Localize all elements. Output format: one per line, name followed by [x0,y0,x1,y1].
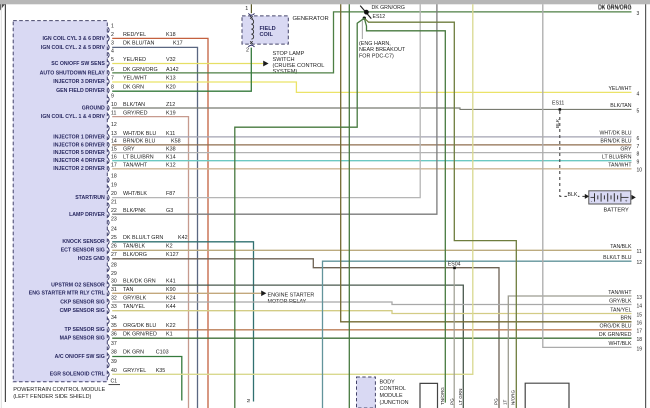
svg-text:19: 19 [637,346,643,352]
svg-text:GROUND: GROUND [82,105,105,111]
svg-text:TAN/BLK: TAN/BLK [123,244,145,250]
svg-text:K17: K17 [173,40,183,46]
svg-text:17: 17 [637,329,643,335]
svg-text:A142: A142 [166,67,179,73]
svg-text:4: 4 [637,91,640,97]
svg-text:K12: K12 [166,163,176,169]
svg-text:K44: K44 [166,304,176,310]
svg-text:6: 6 [637,136,640,142]
svg-text:11: 11 [637,249,642,255]
svg-text:40: 40 [111,368,117,374]
svg-text:TAN/WHT: TAN/WHT [608,290,632,296]
svg-text:BLK/TAN: BLK/TAN [123,102,145,108]
svg-text:YEL/RED: YEL/RED [123,57,146,63]
svg-text:SYSTEM): SYSTEM) [273,69,298,75]
svg-text:23: 23 [111,216,117,222]
svg-text:FIELD: FIELD [260,26,276,32]
svg-text:7: 7 [111,76,114,82]
svg-text:INJECTOR 4 DRIVER: INJECTOR 4 DRIVER [53,158,105,164]
svg-text:14: 14 [637,304,643,310]
svg-text:GENERATOR: GENERATOR [293,16,329,22]
svg-text:BATTERY: BATTERY [604,208,630,214]
svg-text:30: 30 [111,279,117,285]
svg-text:6: 6 [111,67,114,73]
svg-text:12: 12 [111,122,117,128]
svg-text:RED/YEL: RED/YEL [123,32,146,38]
svg-text:16: 16 [111,154,117,160]
svg-text:CMP SENSOR SIG: CMP SENSOR SIG [60,308,105,314]
svg-text:COIL: COIL [260,32,274,38]
svg-text:5: 5 [111,57,114,63]
svg-text:K24: K24 [166,295,176,301]
svg-text:G3: G3 [166,208,173,214]
svg-text:GRY: GRY [123,146,135,152]
svg-text:GRY: GRY [620,146,632,152]
svg-text:15: 15 [111,146,117,152]
svg-text:33: 33 [111,304,117,310]
svg-text:C103: C103 [156,350,169,356]
svg-text:29: 29 [111,271,117,277]
svg-text:13: 13 [637,295,643,301]
svg-text:K41: K41 [166,279,176,285]
svg-text:10: 10 [637,168,643,174]
svg-text:KNOCK SENSOR: KNOCK SENSOR [62,239,105,245]
svg-text:9: 9 [637,160,640,166]
svg-text:TAN/WHT: TAN/WHT [123,163,148,169]
svg-text:ES04: ES04 [448,262,461,268]
svg-text:1T: 1T [503,399,508,405]
svg-text:BRN: BRN [621,316,632,322]
svg-text:TAN/YEL: TAN/YEL [123,304,145,310]
svg-text:LAMP DRIVER: LAMP DRIVER [69,212,105,218]
svg-text:35: 35 [111,323,117,329]
svg-text:LT BLU/BRN: LT BLU/BRN [123,155,154,161]
svg-text:FOR PDC-C7): FOR PDC-C7) [359,53,394,59]
svg-text:AUTO SHUTDOWN RELAY: AUTO SHUTDOWN RELAY [40,70,106,76]
svg-text:TAN/WHT: TAN/WHT [608,163,632,169]
svg-text:IGN COIL CYL. 1 & 4 DRIV: IGN COIL CYL. 1 & 4 DRIV [41,114,105,120]
svg-text:(JUNCTION: (JUNCTION [380,400,409,406]
svg-text:(ENG HARN,: (ENG HARN, [359,41,391,47]
svg-text:EGR SOLENOID CTRL: EGR SOLENOID CTRL [50,372,106,378]
svg-text:24: 24 [111,226,117,232]
svg-text:BRN/DK BLU: BRN/DK BLU [123,138,155,144]
svg-text:32: 32 [111,295,117,301]
svg-text:INJECTOR 3 DRIVER: INJECTOR 3 DRIVER [53,79,105,85]
svg-text:LT GRN: LT GRN [458,389,463,405]
svg-text:15: 15 [637,312,643,318]
svg-text:K42: K42 [178,235,188,241]
svg-text:4: 4 [111,48,114,54]
svg-text:18: 18 [637,337,643,343]
svg-text:34: 34 [111,315,117,321]
svg-text:K13: K13 [166,76,176,82]
svg-text:DK GRN: DK GRN [123,350,144,356]
svg-text:K38: K38 [166,146,176,152]
svg-text:1: 1 [111,23,114,29]
svg-text:START/RUN: START/RUN [75,195,105,201]
svg-text:INJECTOR 2 DRIVER: INJECTOR 2 DRIVER [53,166,105,172]
svg-text:BLK: BLK [555,118,561,128]
svg-text:WHT/BLK: WHT/BLK [608,341,632,347]
svg-text:GEN FIELD DRIVER: GEN FIELD DRIVER [56,88,105,94]
svg-text:22: 22 [111,208,117,214]
svg-text:INJECTOR 1 DRIVER: INJECTOR 1 DRIVER [53,134,105,140]
svg-text:+: + [625,198,628,203]
svg-text:38: 38 [111,350,117,356]
svg-text:27: 27 [111,252,117,258]
svg-text:CKP SENSOR SIG: CKP SENSOR SIG [60,299,105,305]
svg-text:17: 17 [111,163,117,169]
svg-text:BODY: BODY [380,379,396,385]
svg-text:26: 26 [111,244,117,250]
svg-text:K14: K14 [166,155,176,161]
svg-text:Z12: Z12 [166,102,175,108]
svg-text:A/C ON/OFF SW SIG: A/C ON/OFF SW SIG [55,354,105,360]
svg-text:9: 9 [111,93,114,99]
svg-text:DK GRN/RED: DK GRN/RED [123,331,157,337]
svg-text:IGN COIL CYL 3 & 6 DRIV: IGN COIL CYL 3 & 6 DRIV [42,36,105,42]
svg-text:SC ON/OFF SW SENS: SC ON/OFF SW SENS [51,61,105,67]
svg-text:GRY/RED: GRY/RED [123,111,148,117]
svg-text:POWERTRAIN CONTROL MODULE: POWERTRAIN CONTROL MODULE [13,387,105,393]
svg-text:8: 8 [637,152,640,158]
svg-text:7: 7 [637,144,640,150]
svg-text:11: 11 [111,110,116,116]
svg-text:5: 5 [637,108,640,114]
svg-text:BLK/ORG: BLK/ORG [123,252,147,258]
svg-text:DK GRN/ORG: DK GRN/ORG [372,5,405,11]
svg-text:LT BLU/BRN: LT BLU/BRN [602,154,632,160]
svg-text:18: 18 [111,174,117,180]
svg-text:21: 21 [111,199,117,205]
svg-text:19: 19 [111,182,117,188]
svg-text:INJECTOR 6 DRIVER: INJECTOR 6 DRIVER [53,142,105,148]
svg-text:TAN: TAN [123,287,133,293]
svg-text:36: 36 [111,331,117,337]
svg-text:K127: K127 [166,252,179,258]
svg-text:IGN COIL CYL. 2 & 5 DRIV: IGN COIL CYL. 2 & 5 DRIV [41,45,105,51]
svg-text:MAP SENSOR SIG: MAP SENSOR SIG [60,335,105,341]
svg-text:39: 39 [111,359,117,365]
svg-text:ENG STARTER MTR RLY CTRL: ENG STARTER MTR RLY CTRL [29,291,106,297]
svg-text:3: 3 [111,40,114,46]
svg-text:YEL/WHT: YEL/WHT [608,86,632,92]
svg-text:12: 12 [637,260,643,266]
svg-text:CONTROL: CONTROL [380,386,406,392]
svg-text:2: 2 [246,48,249,54]
svg-text:28: 28 [111,262,117,268]
svg-text:ES12: ES12 [373,14,386,20]
svg-text:BLK: BLK [568,192,578,198]
svg-text:K58: K58 [171,138,181,144]
svg-text:K2: K2 [166,244,173,250]
svg-text:NEAR BREAKOUT: NEAR BREAKOUT [359,47,406,53]
svg-text:F87: F87 [166,191,175,197]
svg-text:20: 20 [111,191,117,197]
svg-text:GRY/YEL: GRY/YEL [123,368,146,374]
svg-text:ES11: ES11 [552,101,564,107]
svg-text:16: 16 [637,321,643,327]
svg-text:ENGINE STARTER: ENGINE STARTER [268,293,315,299]
svg-text:WHT/DK BLU: WHT/DK BLU [600,131,632,137]
svg-text:WHT/DK BLU: WHT/DK BLU [123,131,156,137]
svg-text:N/ORG: N/ORG [510,390,515,405]
svg-text:BLK/PNK: BLK/PNK [123,208,146,214]
svg-text:V32: V32 [166,57,176,63]
svg-text:C1: C1 [111,378,118,384]
svg-text:ORG/DK BLU: ORG/DK BLU [123,323,156,329]
svg-text:DK GRN/ORG: DK GRN/ORG [598,5,631,11]
svg-text:DK GRN/RED: DK GRN/RED [599,332,632,338]
svg-text:K22: K22 [166,323,176,329]
svg-text:K1: K1 [166,331,173,337]
svg-text:UPSTRM O2 SENSOR: UPSTRM O2 SENSOR [51,282,105,288]
svg-text:31: 31 [111,287,117,293]
svg-text:GRY/BLK: GRY/BLK [609,298,632,304]
svg-text:K11: K11 [166,131,175,137]
svg-text:BLK/DK GRN: BLK/DK GRN [123,279,156,285]
svg-text:(LEFT FENDER SIDE SHIELD): (LEFT FENDER SIDE SHIELD) [13,394,91,400]
svg-text:K19: K19 [166,111,176,117]
svg-text:DK BLU/TAN: DK BLU/TAN [123,40,154,46]
svg-text:GRY/BLK: GRY/BLK [123,295,147,301]
svg-text:13: 13 [111,131,117,137]
svg-text:DK GRN/ORG: DK GRN/ORG [123,67,158,73]
svg-text:3: 3 [637,11,640,17]
svg-text:K20: K20 [166,84,176,90]
svg-text:HO2S GND: HO2S GND [78,256,105,262]
svg-text:TAN/BLK: TAN/BLK [610,244,632,250]
svg-text:BLK/TAN: BLK/TAN [610,103,631,109]
svg-text:DK GRN: DK GRN [123,84,144,90]
svg-text:TN/ORG: TN/ORG [440,387,445,405]
svg-text:2: 2 [111,32,114,38]
svg-text:TP SENSOR SIG: TP SENSOR SIG [65,327,105,333]
svg-text:K90: K90 [166,287,176,293]
svg-text:PG: PG [493,398,498,405]
svg-text:BLK/LT BLU: BLK/LT BLU [603,255,632,261]
svg-text:TAN/YEL: TAN/YEL [610,307,631,313]
svg-text:ORG/DK BLU: ORG/DK BLU [600,324,632,330]
svg-text:10: 10 [111,102,117,108]
svg-text:MODULE: MODULE [380,393,403,399]
svg-text:25: 25 [111,235,117,241]
svg-text:YEL/WHT: YEL/WHT [123,76,148,82]
svg-text:ECT SENSOR SIG: ECT SENSOR SIG [61,248,105,254]
svg-text:N: N [246,399,251,402]
svg-text:K35: K35 [156,368,166,374]
svg-text:WHT/BLK: WHT/BLK [123,191,147,197]
svg-text:BRN/DK BLU: BRN/DK BLU [600,139,631,145]
svg-text:8: 8 [111,84,114,90]
svg-text:1: 1 [245,6,248,12]
svg-text:14: 14 [111,138,117,144]
svg-text:DK BLU/LT GRN: DK BLU/LT GRN [123,235,163,241]
svg-text:INJECTOR 5 DRIVER: INJECTOR 5 DRIVER [53,150,105,156]
svg-text:37: 37 [111,341,117,347]
svg-text:K18: K18 [166,32,176,38]
